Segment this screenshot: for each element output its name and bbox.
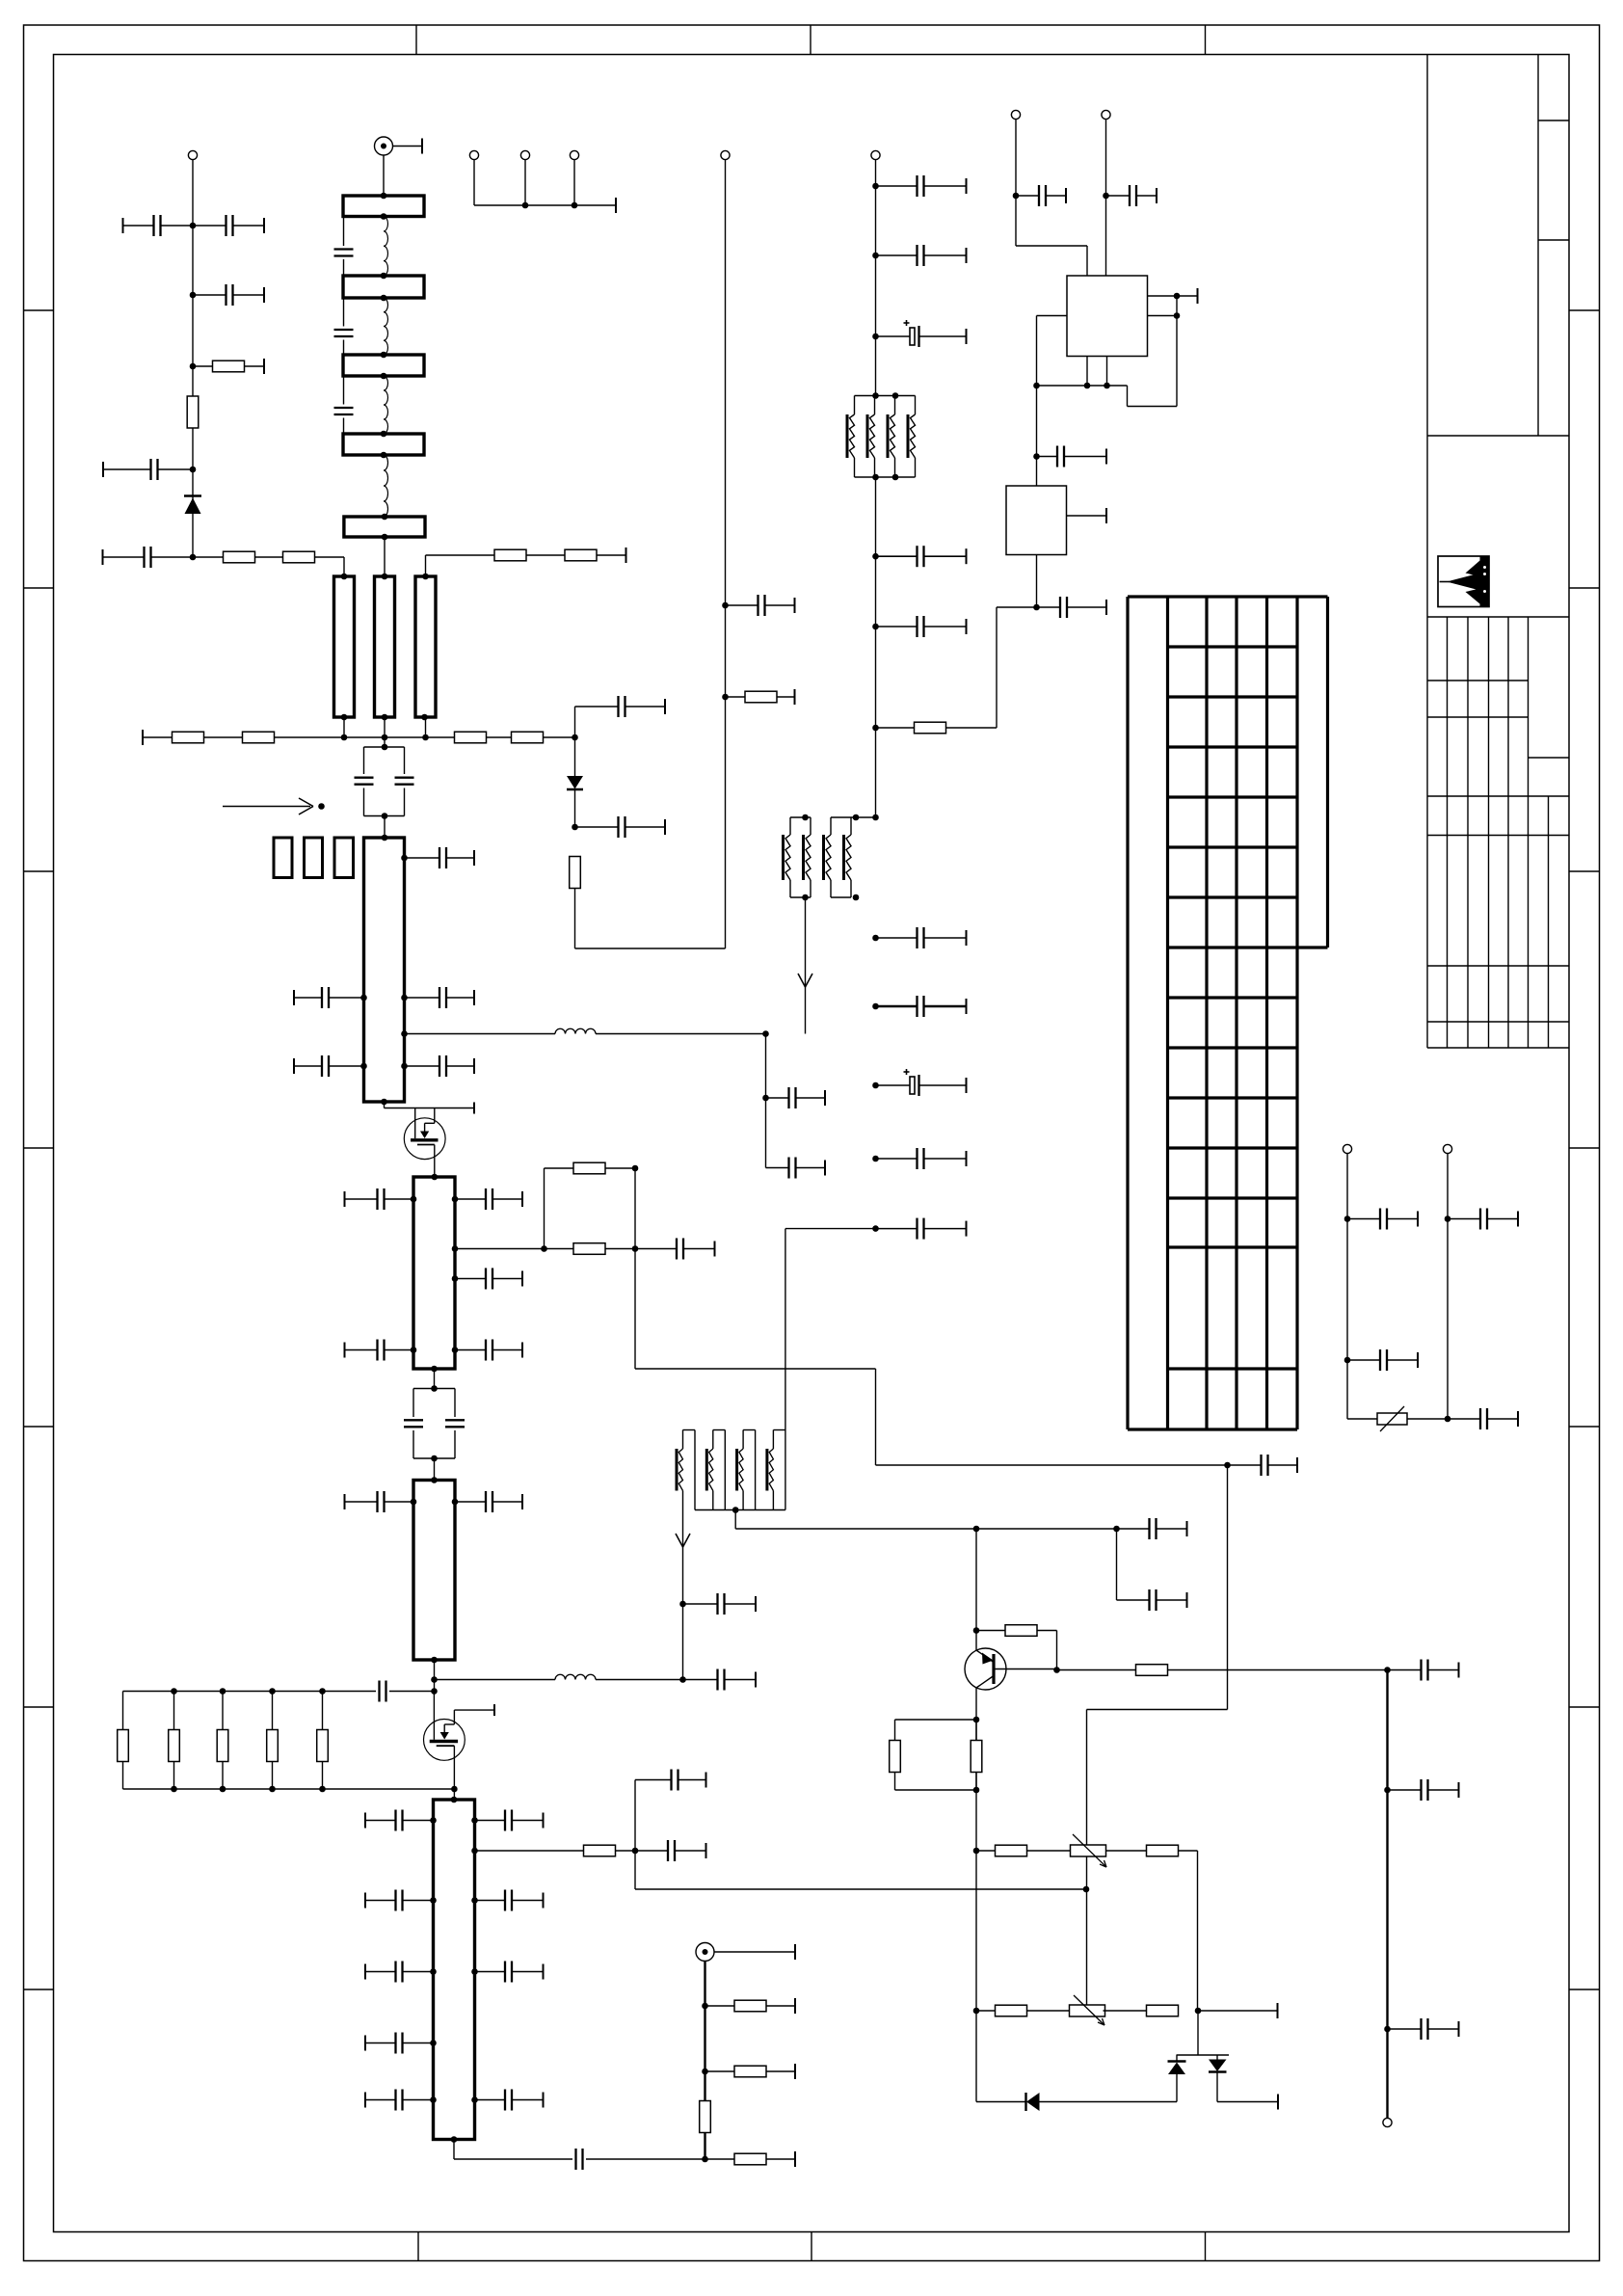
resistor R2: [187, 396, 199, 428]
coil L3: [384, 376, 387, 434]
capacitor C61: [475, 1962, 544, 1983]
resistor R8: [512, 732, 544, 743]
wire SL4 out: [454, 2140, 572, 2160]
node N2: [190, 292, 197, 299]
coil L2: [384, 298, 387, 355]
varistor RV1: [1377, 1406, 1407, 1431]
wire R32-R33: [526, 554, 565, 556]
frame zone tick right 4: [1569, 1147, 1600, 1149]
node N11: [872, 253, 879, 259]
node CT2 top: [431, 1385, 438, 1392]
node N52: [1344, 1215, 1351, 1222]
node N45: [1174, 293, 1181, 300]
node Bv top: [382, 574, 388, 580]
node SL4 l1: [430, 1817, 437, 1824]
node N57: [1384, 1787, 1391, 1794]
resistor R10: [726, 689, 795, 705]
capacitor C4: [103, 459, 193, 480]
frame zone tick right 5: [1569, 1426, 1600, 1428]
wire D4 right: [1217, 2095, 1278, 2110]
wire to x752: [575, 948, 726, 949]
diode D1 zener: [184, 496, 201, 515]
node N50: [1033, 453, 1040, 460]
capacitor C59: [475, 1890, 544, 1911]
node RB f: [220, 1786, 226, 1793]
capacitor C64: [475, 2090, 544, 2111]
resistor R33: [565, 549, 597, 561]
capacitor C45: [1106, 185, 1157, 206]
node N7: [572, 824, 578, 831]
capacitor C27: [294, 1055, 364, 1077]
wire B5 to box B: [384, 537, 386, 576]
node RB c: [269, 1688, 276, 1695]
node CT1 top: [382, 744, 388, 751]
capacitor C58: [365, 1890, 434, 1911]
connector J7: [871, 150, 880, 159]
resonator box A: [334, 576, 355, 717]
capacitor C1: [123, 215, 194, 236]
wire Q1 source: [434, 1145, 436, 1178]
capacitor C43: [635, 1840, 706, 1861]
wire J9 down: [1105, 120, 1107, 276]
resistor R4: [283, 551, 315, 563]
capacitor C11: [726, 595, 795, 616]
wire J6 down: [725, 160, 727, 948]
capacitor C65: [576, 2149, 705, 2170]
capacitor C55 series: [380, 1681, 435, 1702]
connector J10: [1343, 1144, 1351, 1153]
title block cell line 1: [1538, 120, 1569, 121]
capacitor C22: [405, 847, 475, 868]
node SL3 bottom: [431, 1657, 438, 1664]
U1 pin bottom 1: [1086, 357, 1088, 387]
node SL2 bottom: [431, 1366, 438, 1373]
frame zone tick bottom 2: [811, 2232, 812, 2261]
capacitor C49: [1347, 1349, 1418, 1371]
wire Cv stub: [425, 717, 427, 737]
node SL2 top: [432, 1174, 439, 1181]
node N6: [572, 734, 578, 741]
capacitor C31: [635, 1239, 715, 1260]
title block logo box: [1438, 556, 1489, 607]
capacitor C63: [365, 2090, 434, 2111]
resonator box B2: [343, 276, 424, 298]
resonator box Cv: [415, 576, 436, 717]
wire emitter bottom: [976, 2101, 1026, 2103]
node SL4 r5: [471, 2096, 478, 2103]
wire N27 down: [1087, 1465, 1228, 2005]
wire SL2 down: [434, 1369, 436, 1389]
node B4 bottom: [381, 452, 387, 459]
capacitor C24: [405, 987, 475, 1008]
resistor bank R22-R26: [118, 1692, 329, 1790]
resistor R28: [705, 1998, 796, 2014]
node N42: [1083, 1886, 1090, 1893]
shield box S3: [334, 838, 354, 878]
capacitor C44: [1016, 185, 1066, 206]
node N4: [190, 467, 197, 473]
node N35: [1053, 1667, 1060, 1673]
node SL1 r2: [401, 995, 408, 1001]
capacitor C36: [345, 1491, 414, 1512]
resistor R16: [890, 1720, 976, 1790]
frame zone tick right 2: [1569, 587, 1600, 589]
connector J8: [1011, 110, 1020, 119]
capacitor C53: [1388, 1779, 1459, 1801]
title block cell line 2: [1538, 239, 1569, 241]
capacitor C9: [575, 696, 666, 717]
wire Bv stub: [384, 717, 386, 747]
wire L5 right: [596, 1033, 766, 1035]
wire J2 down: [383, 155, 385, 196]
node SL4 r3: [471, 1897, 478, 1904]
connector J11: [1443, 1144, 1451, 1153]
node N55: [1445, 1215, 1451, 1222]
title table outline left: [1426, 617, 1428, 1430]
capacitor C29: [345, 1188, 414, 1210]
wire Q3 source: [453, 1746, 455, 1800]
frame zone tick top 1: [415, 25, 417, 55]
wire T2 down with arrow: [798, 897, 812, 1034]
node N41: [632, 1848, 639, 1855]
node SL4 r4: [471, 1968, 478, 1975]
node N26: [632, 1165, 639, 1172]
frame zone tick left 5: [24, 1426, 54, 1428]
node N20: [872, 1156, 879, 1162]
frame zone tick left 2: [24, 587, 54, 589]
node N33: [1113, 1526, 1120, 1533]
potentiometer VR1: [1071, 1834, 1107, 1867]
capacitor C38: [683, 1593, 757, 1615]
capacitor C42 up: [635, 1770, 706, 1852]
wire SL3 down: [434, 1660, 436, 1692]
node B2 bottom: [381, 295, 387, 302]
wire N45-N46: [1176, 296, 1178, 316]
node B3 top: [381, 352, 387, 359]
transistor Q2 BJT: [965, 1648, 1006, 1690]
transistor Q1 MOSFET: [404, 1108, 445, 1160]
node N31: [679, 1676, 686, 1683]
trimmer capacitor pair CT2: [404, 1389, 465, 1459]
node RB a: [171, 1688, 177, 1695]
wire L6 right: [596, 1679, 683, 1681]
node N60: [702, 2069, 708, 2075]
capacitor C40: [1117, 1518, 1187, 1539]
capacitor C18: [876, 996, 967, 1017]
wire VR1 right: [1106, 1850, 1148, 1852]
connector J2 RF: [375, 137, 393, 155]
node RB h: [319, 1786, 326, 1793]
wire base right: [1057, 1669, 1136, 1671]
bus bottom: [123, 1788, 455, 1790]
wire J7 down: [875, 160, 877, 396]
node N10: [872, 183, 879, 190]
bus top left: [123, 1691, 377, 1693]
bus765 left: [143, 730, 575, 745]
capacitor C47: [1037, 597, 1107, 618]
node N43: [1013, 193, 1020, 200]
wire RV1 right: [1407, 1418, 1448, 1420]
frame zone tick left 3: [24, 870, 54, 872]
transformer T3: [677, 1430, 785, 1510]
wire J10 down: [1346, 1154, 1348, 1419]
capacitor C2: [193, 215, 264, 236]
resonator box B1: [343, 196, 424, 217]
node N25: [632, 1245, 639, 1252]
frame zone tick left 7: [24, 1989, 54, 1990]
wire J13 stub: [714, 1944, 795, 1960]
node N29: [431, 1688, 438, 1695]
node N16: [872, 814, 879, 821]
title block logo silhouette: [1440, 556, 1490, 607]
node SL1 r3: [401, 1030, 408, 1037]
wire N21 left: [785, 1228, 876, 1230]
wire N6 up: [574, 707, 576, 737]
connector J1: [188, 150, 197, 159]
frame zone tick left 4: [24, 1147, 54, 1149]
node N32: [973, 1526, 980, 1533]
node SL4 top: [451, 1797, 458, 1803]
resistor R20: [976, 2005, 1072, 2016]
node T1 d: [892, 474, 899, 481]
node CT2 bottom: [431, 1455, 438, 1462]
node B3 bottom: [381, 373, 387, 380]
node N56: [1384, 1667, 1391, 1673]
wire J5 down: [573, 160, 575, 205]
connector J4: [520, 150, 529, 159]
capacitor C13: [876, 245, 967, 266]
shield box S1: [274, 838, 292, 878]
capacitor C10: [575, 816, 666, 838]
shield grid assembly: [1128, 597, 1328, 1429]
wire R33 end: [597, 547, 626, 563]
wire D2 down: [574, 789, 576, 827]
capacitor C21: [876, 1218, 967, 1240]
frame zone tick right 6: [1569, 1706, 1600, 1708]
resistor R27: [475, 1845, 636, 1856]
node Bv bottom: [382, 714, 388, 721]
node SL4 r2: [471, 1848, 478, 1855]
capacitor C60: [365, 1962, 434, 1983]
connector J12: [1383, 2118, 1392, 2126]
wire J1 down: [192, 160, 194, 557]
wire J4 down: [524, 160, 526, 205]
wire Cv top across: [426, 554, 495, 556]
capacitor C39: [683, 1669, 757, 1691]
wire N40 down: [1197, 2011, 1199, 2055]
node bus765 B: [382, 734, 388, 741]
wire J3 down: [473, 160, 475, 205]
node N21: [872, 1225, 879, 1232]
title block outline: [1426, 55, 1428, 1049]
coil L1: [384, 217, 387, 277]
wire SL1 to Q1: [385, 1102, 475, 1114]
node N38: [973, 1848, 980, 1855]
wire thick down: [1386, 1670, 1388, 2119]
resistor R31: [705, 2151, 796, 2167]
node N18: [872, 1003, 879, 1010]
zener pair top bar: [1177, 2054, 1230, 2056]
wire row A corner: [1179, 1851, 1198, 2011]
node B4 top: [381, 431, 387, 438]
wire T1 down: [875, 477, 877, 817]
node T1 a: [872, 392, 879, 399]
wire N46 down: [1128, 316, 1178, 407]
bus wire to resonators: [193, 556, 344, 558]
wire T3 feed down: [785, 1229, 786, 1430]
diode D3 zener: [1168, 2055, 1186, 2102]
resistor R17: [971, 1720, 982, 1790]
resistor R9: [570, 857, 581, 889]
node N8: [722, 602, 729, 609]
resistor R12: [545, 1243, 636, 1255]
wire N40 right: [1198, 2003, 1278, 2018]
node N37: [973, 1787, 980, 1794]
node N19: [872, 1082, 879, 1089]
wire J2 stub: [393, 139, 423, 154]
capacitor C30: [455, 1188, 522, 1210]
node Cv top: [422, 574, 429, 580]
capacitor C46: [1037, 446, 1107, 467]
node SL2 r1: [452, 1196, 459, 1203]
capacitor C34: [345, 1340, 414, 1361]
wire Cv up: [425, 555, 427, 576]
inductor L6: [555, 1674, 596, 1679]
resistor R6: [243, 732, 275, 743]
transformer T2: [784, 817, 852, 897]
stripline box SL1: [364, 838, 405, 1102]
wire base right 2: [1168, 1669, 1388, 1671]
connector J9: [1102, 110, 1110, 119]
frame zone tick left 6: [24, 1706, 54, 1708]
node CT1 bottom: [382, 813, 388, 819]
wire D5 right: [1040, 2101, 1178, 2103]
wire FET2 drain: [433, 1692, 435, 1740]
node T1 b: [892, 392, 899, 399]
wire collector: [975, 1529, 977, 1650]
node T3 tap: [732, 1507, 739, 1513]
node N27: [1224, 1462, 1231, 1469]
stripline box SL3: [413, 1481, 455, 1661]
U1 pin right 2: [1148, 315, 1178, 317]
node SL2 r2: [452, 1245, 459, 1252]
node N24: [541, 1245, 547, 1252]
node bus765 A: [341, 734, 348, 741]
frame zone tick right 3: [1569, 870, 1600, 872]
frame zone tick right 1: [1569, 309, 1600, 311]
node N15: [872, 725, 879, 732]
resistor R3: [224, 551, 255, 563]
title block row line: [1427, 435, 1569, 437]
node SL2 r4: [452, 1347, 459, 1353]
wire emitter down: [975, 1688, 977, 2102]
node SL4 l2: [430, 1897, 437, 1904]
capacitor C3: [193, 284, 264, 306]
wire N41 down: [635, 1851, 1086, 1889]
wire N25 down-right: [635, 1249, 1228, 1466]
capacitor C35: [455, 1340, 522, 1361]
frame zone tick bottom 1: [417, 2232, 419, 2261]
capacitor C14 electrolytic: [876, 320, 967, 347]
node N13: [872, 553, 879, 560]
node N5: [190, 554, 197, 561]
frame zone tick top 3: [1205, 25, 1207, 55]
wire N45 endbar: [1177, 288, 1198, 304]
node N51: [1033, 604, 1040, 611]
node B5 bottom: [382, 534, 388, 541]
wire J11 down: [1447, 1154, 1449, 1419]
node B2 top: [381, 273, 387, 280]
stripline box SL4: [434, 1800, 475, 2140]
node N14: [872, 624, 879, 630]
node N9: [722, 694, 729, 701]
node Cv bottom: [421, 714, 428, 721]
IC U1: [1067, 276, 1148, 357]
wire N47 down: [1036, 386, 1038, 486]
capacitor C41: [1117, 1589, 1187, 1611]
trimmer capacitor pair CT1: [355, 747, 414, 816]
node bus765 C: [422, 734, 429, 741]
capacitor C16: [876, 616, 967, 637]
node SL3 l1: [411, 1499, 417, 1506]
node N53: [1344, 1357, 1351, 1364]
wire R30 down: [704, 2133, 705, 2160]
node T2 c: [802, 894, 809, 901]
IC U2: [1006, 486, 1067, 555]
wire bend down to box A: [343, 557, 345, 576]
node SL3 top: [431, 1477, 438, 1483]
frame zone tick top 2: [810, 25, 811, 55]
node N36: [973, 1717, 980, 1723]
transformer T1: [847, 396, 916, 478]
capacitor C12: [876, 175, 967, 197]
node SL1 r1: [401, 855, 408, 862]
node N54: [1445, 1416, 1451, 1423]
connector J5: [570, 150, 578, 159]
T3 unit1 leg: [694, 1430, 696, 1510]
node T2 d: [853, 894, 860, 901]
node A bottom: [341, 714, 348, 721]
wire CT1 down: [384, 816, 386, 839]
diode D4 zener: [1209, 2055, 1227, 2102]
resistor R5: [173, 732, 204, 743]
U2 pin right: [1067, 508, 1107, 523]
capacitor C51: [1448, 1209, 1518, 1230]
capacitor C19 electrolytic: [876, 1069, 967, 1096]
node RB d: [319, 1688, 326, 1695]
node A top: [341, 574, 348, 580]
capacitor C25: [766, 1087, 826, 1108]
node T2 a: [802, 814, 809, 821]
node N23: [762, 1095, 769, 1102]
capacitor C20: [876, 1148, 967, 1169]
capacitor C28: [405, 1055, 475, 1077]
node RB g: [269, 1786, 276, 1793]
resistor R19: [1147, 1845, 1179, 1856]
capacitor C17: [876, 927, 967, 948]
node SL1 l1: [360, 995, 367, 1001]
node N48: [1084, 383, 1091, 389]
frame zone tick left 1: [24, 309, 54, 311]
node B1 top: [381, 193, 387, 200]
resistor R7: [455, 732, 487, 743]
resonator box Bv: [375, 576, 395, 717]
node N49: [1104, 383, 1110, 389]
node N58: [1384, 2026, 1391, 2033]
node SL1 bottom: [381, 1099, 387, 1106]
coil L4: [384, 455, 387, 517]
node N46: [1174, 312, 1181, 319]
